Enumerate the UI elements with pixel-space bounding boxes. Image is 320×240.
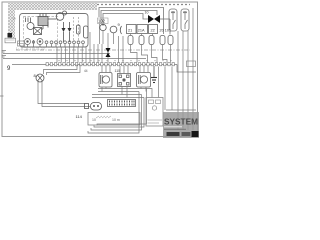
svg-text:19: 19	[13, 17, 17, 21]
svg-text:115: 115	[115, 69, 121, 73]
svg-text:21A: 21A	[138, 29, 145, 33]
svg-text:44: 44	[84, 69, 88, 73]
svg-text:102: 102	[98, 19, 106, 24]
svg-text:22: 22	[151, 29, 155, 33]
svg-text:10 m: 10 m	[112, 118, 120, 122]
svg-text:SYSTEM: SYSTEM	[164, 118, 198, 127]
svg-text:10: 10	[92, 118, 96, 122]
svg-text:10: 10	[145, 11, 149, 15]
svg-text:114: 114	[76, 114, 83, 119]
svg-text:1- 2L 1L1 N 21 22: 1- 2L 1L1 N 21 22	[16, 47, 45, 51]
svg-text:21: 21	[128, 29, 132, 33]
